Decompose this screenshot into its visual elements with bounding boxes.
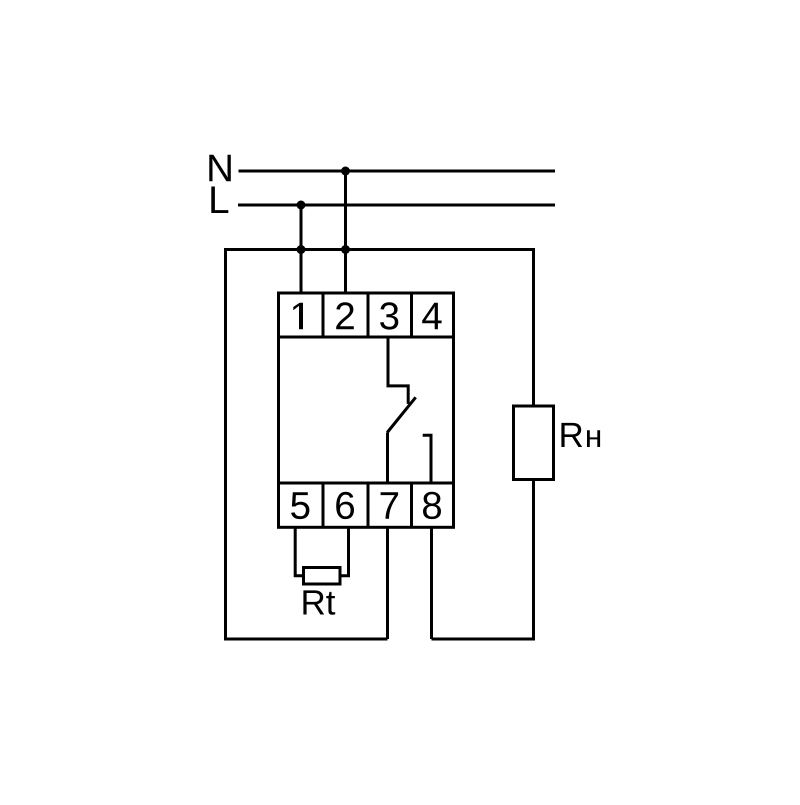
terminal divider 5/6 xyxy=(322,483,325,527)
terminal divider 6/7 xyxy=(367,483,370,527)
wire left loop to bottom bus xyxy=(226,248,388,639)
wire right loop lower (Rh to terminal 8) xyxy=(432,479,534,640)
terminal divider 7/8 xyxy=(410,483,413,527)
terminal divider 1/2 xyxy=(322,293,325,337)
relay body outline xyxy=(279,293,454,527)
resistor Rh xyxy=(514,406,554,480)
junction dot N line / terminal-2 drop xyxy=(341,167,350,176)
wire terminal 3 to fixed contact (jog) xyxy=(388,337,408,404)
label Rt - R xyxy=(303,590,324,614)
terminal strip top: lower edge xyxy=(279,336,454,339)
junction dot bus / terminal-1 drop xyxy=(297,245,306,254)
wire terminal 6 to Rt right xyxy=(340,526,349,576)
terminal 2 label xyxy=(336,302,354,329)
terminal divider 2/3 xyxy=(367,293,370,337)
terminal 4 label xyxy=(422,303,441,330)
fixed contact of terminal 8 xyxy=(423,435,431,484)
junction dot bus / terminal-2 drop xyxy=(341,245,350,254)
terminal 5 label xyxy=(291,492,309,519)
label N xyxy=(209,155,231,182)
wire terminal 5 to Rt left xyxy=(295,526,304,576)
wire terminal 8 to bottom xyxy=(430,526,433,639)
terminal 3 label xyxy=(380,302,398,329)
label L xyxy=(211,187,228,214)
wire N supply line xyxy=(239,170,556,173)
junction dot L line / terminal-1 drop xyxy=(297,201,306,210)
wire N to terminal 2 xyxy=(344,171,347,294)
label Rh - n sub xyxy=(587,430,600,447)
wire L supply line xyxy=(238,204,555,207)
terminal 8 label xyxy=(423,492,441,519)
terminal 6 label xyxy=(336,492,354,519)
terminal 1 label xyxy=(293,303,303,330)
wire blade pivot to terminal 7 xyxy=(386,433,389,485)
wire terminal 7 to bottom bus xyxy=(386,526,389,639)
terminal 7 label xyxy=(381,492,399,519)
wire supply bus xyxy=(226,248,534,251)
wire L to terminal 1 xyxy=(300,205,303,294)
wire right loop upper (bus to Rh) xyxy=(532,248,535,407)
terminal strip bottom: upper edge xyxy=(279,482,454,485)
label Rh - R xyxy=(561,423,582,447)
resistor Rt xyxy=(304,568,341,585)
label Rt - t xyxy=(326,592,335,615)
terminal divider 3/4 xyxy=(410,293,413,337)
switch blade (relay contact, open) xyxy=(387,397,416,432)
